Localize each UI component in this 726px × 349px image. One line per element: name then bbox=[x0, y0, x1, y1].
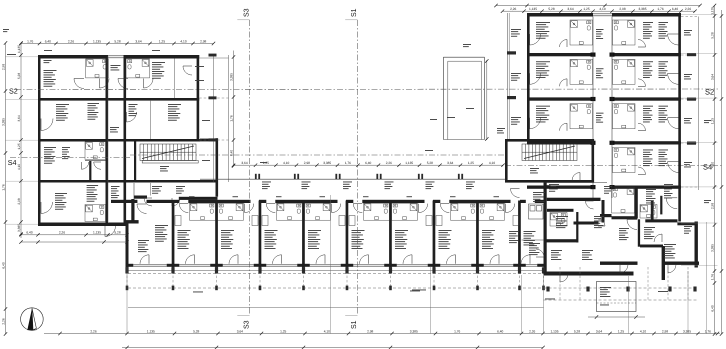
top-left dimension line bbox=[21, 43, 214, 45]
svg-text:3,385: 3,385 bbox=[710, 244, 714, 252]
right wing middle strip bbox=[592, 17, 594, 199]
left dimension lines bbox=[5, 43, 7, 334]
right dimension line bbox=[714, 6, 716, 335]
svg-text:3,385: 3,385 bbox=[683, 329, 691, 333]
courtyard dim leader bbox=[486, 60, 488, 140]
svg-text:3,64: 3,64 bbox=[17, 115, 21, 121]
left wall leaders bbox=[6, 56, 39, 58]
west end room bbox=[137, 204, 147, 214]
svg-text:S4: S4 bbox=[8, 158, 17, 167]
narrow room at east end of row bbox=[524, 231, 536, 245]
svg-text:3,385: 3,385 bbox=[410, 329, 418, 333]
misc small annotations bbox=[7, 53, 16, 56]
svg-text:5,28: 5,28 bbox=[193, 329, 199, 333]
right wing outer walls bbox=[527, 13, 530, 139]
svg-text:2,26: 2,26 bbox=[529, 329, 535, 333]
svg-text:1,76: 1,76 bbox=[454, 329, 460, 333]
section line S4 horizontal bbox=[10, 157, 130, 159]
corridor north wall with piers bbox=[200, 178, 505, 180]
identical rooms: baths, texts, arcs bbox=[190, 203, 216, 220]
svg-text:1,25: 1,25 bbox=[159, 39, 165, 43]
svg-text:4,10: 4,10 bbox=[489, 161, 495, 165]
vertical dim between wings bbox=[233, 51, 235, 167]
svg-text:S3: S3 bbox=[243, 8, 250, 17]
svg-text:S2: S2 bbox=[705, 88, 714, 97]
svg-text:1,25: 1,25 bbox=[17, 143, 21, 149]
right wing west balcony strip bbox=[507, 13, 509, 139]
svg-text:2,98: 2,98 bbox=[17, 198, 21, 204]
room row south wall with window gaps bbox=[126, 264, 134, 267]
junction lobby details bbox=[509, 231, 519, 243]
left wing balcony texts bbox=[195, 65, 204, 68]
left wing room texts bbox=[44, 70, 57, 87]
right wall leaders bbox=[681, 14, 718, 16]
left wing bathrooms bbox=[86, 59, 109, 78]
svg-text:2,26: 2,26 bbox=[59, 231, 65, 235]
svg-text:1,135: 1,135 bbox=[93, 231, 101, 235]
right wing stair room bbox=[505, 139, 594, 142]
svg-text:6,40: 6,40 bbox=[710, 305, 714, 311]
svg-text:2,98: 2,98 bbox=[200, 39, 206, 43]
left-wing south dimension line bbox=[21, 234, 127, 236]
right wing row walls bbox=[527, 53, 593, 56]
left wing outer walls bbox=[38, 55, 108, 59]
left wing balcony strip bbox=[213, 55, 215, 182]
svg-text:4,10: 4,10 bbox=[599, 7, 605, 11]
corridor dimension line bbox=[234, 164, 504, 166]
svg-text:1,135: 1,135 bbox=[147, 329, 155, 333]
room row corridor wall bbox=[111, 200, 137, 203]
svg-text:1,25: 1,25 bbox=[618, 329, 624, 333]
svg-text:3,385: 3,385 bbox=[229, 73, 233, 81]
svg-text:S3: S3 bbox=[243, 320, 250, 329]
svg-text:3,385: 3,385 bbox=[323, 161, 331, 165]
block main walls bbox=[547, 198, 601, 201]
svg-text:2,98: 2,98 bbox=[1, 64, 5, 70]
svg-text:4,10: 4,10 bbox=[640, 329, 646, 333]
svg-text:5,28: 5,28 bbox=[17, 73, 21, 79]
left wing spine and shaft walls bbox=[106, 56, 109, 226]
svg-text:1,76: 1,76 bbox=[229, 115, 233, 121]
svg-text:2,98: 2,98 bbox=[710, 203, 714, 209]
svg-text:S2: S2 bbox=[9, 87, 18, 96]
svg-text:6,40: 6,40 bbox=[229, 150, 233, 156]
svg-text:2,98: 2,98 bbox=[304, 161, 310, 165]
svg-text:6,40: 6,40 bbox=[672, 7, 678, 11]
left wing stair room bbox=[134, 139, 136, 183]
svg-text:3,64: 3,64 bbox=[135, 39, 141, 43]
south annex room bbox=[597, 282, 637, 312]
section line S2 horizontal bbox=[15, 88, 718, 91]
left wing room dividers bbox=[174, 59, 176, 99]
block door arcs bbox=[666, 198, 677, 209]
block terrace bbox=[544, 287, 698, 289]
svg-text:1,76: 1,76 bbox=[27, 39, 33, 43]
svg-text:4,10: 4,10 bbox=[180, 39, 186, 43]
svg-text:1,135: 1,135 bbox=[93, 39, 101, 43]
svg-text:4,10: 4,10 bbox=[17, 164, 21, 170]
north arrow bbox=[21, 308, 44, 331]
svg-text:1,25: 1,25 bbox=[280, 329, 286, 333]
svg-text:S1: S1 bbox=[351, 8, 358, 17]
svg-text:2,26: 2,26 bbox=[685, 7, 691, 11]
svg-text:1,135: 1,135 bbox=[529, 7, 537, 11]
svg-text:1,76: 1,76 bbox=[345, 161, 351, 165]
svg-text:3,64: 3,64 bbox=[241, 161, 247, 165]
top-right dimension lines bbox=[496, 5, 700, 7]
svg-text:5,28: 5,28 bbox=[114, 231, 120, 235]
svg-text:3,385: 3,385 bbox=[639, 7, 647, 11]
right wing rooms bbox=[570, 20, 593, 45]
svg-text:3,64: 3,64 bbox=[567, 7, 573, 11]
svg-text:6,40: 6,40 bbox=[365, 161, 371, 165]
right wing top wall bbox=[527, 13, 593, 17]
svg-text:6,40: 6,40 bbox=[1, 262, 5, 268]
block thin partitions bbox=[660, 196, 662, 215]
svg-text:5,28: 5,28 bbox=[114, 39, 120, 43]
block bathrooms bbox=[612, 187, 635, 213]
svg-text:1,135: 1,135 bbox=[710, 7, 714, 15]
svg-text:4,10: 4,10 bbox=[324, 329, 330, 333]
svg-text:3,385: 3,385 bbox=[1, 118, 5, 126]
svg-text:2,26: 2,26 bbox=[68, 39, 74, 43]
svg-text:2,98: 2,98 bbox=[367, 329, 373, 333]
svg-text:4,10: 4,10 bbox=[283, 161, 289, 165]
svg-text:2,26: 2,26 bbox=[1, 318, 5, 324]
svg-text:3,64: 3,64 bbox=[237, 329, 243, 333]
svg-text:1,135: 1,135 bbox=[405, 161, 413, 165]
left wing lobby below stair bbox=[134, 196, 147, 199]
terrace south of room row bbox=[128, 270, 544, 272]
svg-text:4,10: 4,10 bbox=[710, 162, 714, 168]
dim leaders bbox=[126, 267, 128, 334]
svg-text:3,64: 3,64 bbox=[447, 161, 453, 165]
svg-text:6,40: 6,40 bbox=[497, 329, 503, 333]
bottom dimension line bbox=[44, 333, 720, 335]
section line S1 vertical bbox=[357, 20, 359, 316]
svg-text:1,135: 1,135 bbox=[17, 45, 21, 53]
left wing floor-row walls bbox=[38, 98, 199, 101]
svg-text:1,76: 1,76 bbox=[1, 184, 5, 190]
lower auxiliary dimension line bbox=[122, 347, 543, 349]
svg-text:5,28: 5,28 bbox=[710, 32, 714, 38]
section line S3 vertical bbox=[249, 20, 251, 316]
svg-text:3,385: 3,385 bbox=[17, 224, 21, 232]
svg-text:6,40: 6,40 bbox=[26, 231, 32, 235]
svg-text:1,76: 1,76 bbox=[705, 329, 711, 333]
svg-text:3,64: 3,64 bbox=[596, 329, 602, 333]
left wing door arcs bbox=[41, 119, 53, 131]
corridor flur texts bbox=[262, 182, 271, 190]
svg-text:5,28: 5,28 bbox=[427, 161, 433, 165]
svg-text:1,25: 1,25 bbox=[468, 161, 474, 165]
svg-text:2,98: 2,98 bbox=[619, 7, 625, 11]
svg-text:1,135: 1,135 bbox=[551, 329, 559, 333]
room row dividing walls bbox=[172, 201, 175, 268]
svg-text:6,40: 6,40 bbox=[45, 39, 51, 43]
svg-text:2,98: 2,98 bbox=[662, 329, 668, 333]
svg-text:5,28: 5,28 bbox=[548, 7, 554, 11]
svg-text:5,28: 5,28 bbox=[574, 329, 580, 333]
svg-text:2,26: 2,26 bbox=[90, 329, 96, 333]
svg-text:3,64: 3,64 bbox=[710, 74, 714, 80]
svg-text:1,25: 1,25 bbox=[583, 7, 589, 11]
block texts bbox=[604, 186, 612, 194]
svg-text:2,26: 2,26 bbox=[510, 7, 516, 11]
courtyard glazed walls bbox=[442, 57, 444, 139]
svg-text:1,25: 1,25 bbox=[263, 161, 269, 165]
svg-text:S1: S1 bbox=[351, 320, 358, 329]
right wing east balcony strip bbox=[698, 17, 700, 191]
svg-text:1,76: 1,76 bbox=[657, 7, 663, 11]
svg-text:1,76: 1,76 bbox=[710, 274, 714, 280]
svg-text:2,26: 2,26 bbox=[386, 161, 392, 165]
